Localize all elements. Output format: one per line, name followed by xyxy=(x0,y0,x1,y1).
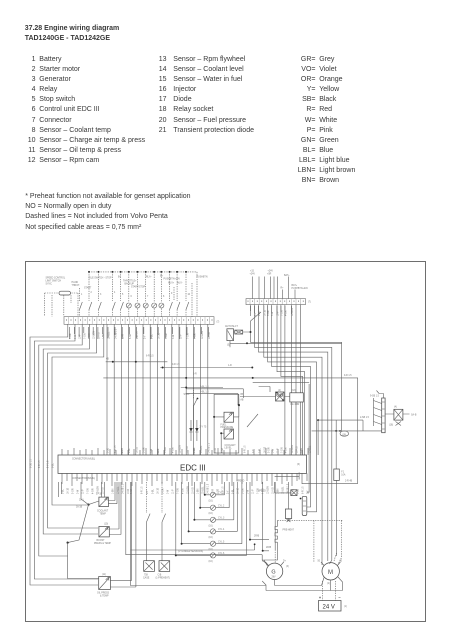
pin labels under strip A xyxy=(70,327,209,339)
svg-text:24 V: 24 V xyxy=(323,605,335,611)
connector strip B (right, item 7) xyxy=(246,299,306,305)
left staircase wire 6 xyxy=(52,324,104,505)
svg-text:9-BL: 9-BL xyxy=(53,462,55,468)
svg-text:EDC III: EDC III xyxy=(180,464,206,473)
svg-text:15-LBL: 15-LBL xyxy=(109,331,111,339)
diode D2 xyxy=(195,420,198,441)
svg-text:SPEED: SPEED xyxy=(237,481,245,483)
svg-text:11-P: 11-P xyxy=(180,334,182,339)
svg-text:(16): (16) xyxy=(209,537,213,539)
svg-text:1-BN: 1-BN xyxy=(278,488,280,494)
svg-text:3-W: 3-W xyxy=(151,448,153,453)
svg-text:7-GN: 7-GN xyxy=(282,447,284,453)
labels above strip B xyxy=(250,271,309,291)
pushbutton B2 xyxy=(135,272,140,317)
auto switch box xyxy=(227,329,234,341)
wires above strip B xyxy=(252,277,295,299)
svg-text:8-SB: 8-SB xyxy=(222,447,224,453)
svg-text:14-SB 1.5: 14-SB 1.5 xyxy=(208,442,210,453)
switch below strip B xyxy=(251,305,262,321)
svg-text:4-OR: 4-OR xyxy=(172,447,174,453)
svg-text:9-BL: 9-BL xyxy=(63,488,65,494)
coolant level sensor (item 14) xyxy=(224,429,234,439)
svg-text:2-Y: 2-Y xyxy=(255,312,257,316)
svg-text:4: 4 xyxy=(114,292,116,294)
sensor 10 wires xyxy=(109,482,121,535)
svg-text:4-OR: 4-OR xyxy=(93,488,95,494)
coolant temp sensor (item 8) xyxy=(99,497,109,507)
svg-text:(1): (1) xyxy=(344,606,347,608)
svg-text:6-SB 1.5: 6-SB 1.5 xyxy=(31,458,33,468)
svg-text:8-SB: 8-SB xyxy=(218,488,220,494)
svg-text:D+: D+ xyxy=(283,561,287,563)
left staircase wire 1 xyxy=(30,324,98,585)
fuel pressure / relay cluster wires xyxy=(240,383,309,397)
svg-text:5-GR: 5-GR xyxy=(73,488,75,494)
svg-text:B+: B+ xyxy=(118,277,122,279)
svg-text:15-LBL: 15-LBL xyxy=(201,445,203,453)
legend column 3: colour codes xyxy=(280,55,355,186)
svg-text:(16): (16) xyxy=(209,525,213,527)
sensor 10 label xyxy=(94,524,111,545)
svg-text:5-GR: 5-GR xyxy=(243,488,245,494)
svg-text:5-GR: 5-GR xyxy=(268,310,270,316)
svg-text:16-1B: 16-1B xyxy=(264,309,266,316)
wire links to sensors xyxy=(186,389,243,407)
pin number labels strip A xyxy=(70,328,211,339)
svg-text:16-1B: 16-1B xyxy=(159,332,161,339)
wire aux drops xyxy=(174,283,192,317)
switch column S2 xyxy=(89,272,92,317)
svg-text:10: 10 xyxy=(188,294,191,296)
EDC pin row top xyxy=(62,448,308,455)
socket top lead xyxy=(370,391,383,399)
generator feed wire xyxy=(274,482,276,563)
svg-text:3-W: 3-W xyxy=(272,448,274,453)
svg-text:2-Y: 2-Y xyxy=(308,490,310,494)
svg-text:13-R: 13-R xyxy=(128,489,130,494)
svg-text:(18): (18) xyxy=(342,435,346,437)
svg-text:12-LBN: 12-LBN xyxy=(292,445,294,453)
staircase rotated labels xyxy=(31,458,55,468)
sensor enclosure xyxy=(214,394,239,453)
cross link 1 xyxy=(106,361,168,363)
svg-text:14-SB 1.5: 14-SB 1.5 xyxy=(116,328,118,339)
svg-text:7-GN: 7-GN xyxy=(88,488,90,494)
relay socket item 18 xyxy=(290,393,304,402)
svg-text:(4): (4) xyxy=(394,407,397,409)
svg-text:(18): (18) xyxy=(389,425,393,427)
switch column S3 xyxy=(99,272,102,317)
G terminals xyxy=(262,561,287,566)
svg-text:(6): (6) xyxy=(297,464,300,466)
wire fuse down xyxy=(336,480,338,556)
wire to junction J1 xyxy=(81,482,90,506)
svg-text:11-P: 11-P xyxy=(278,448,280,453)
svg-text:& TEMP: & TEMP xyxy=(100,596,109,598)
wire pushbtn drop xyxy=(196,272,198,317)
svg-text:2R/B: 2R/B xyxy=(254,536,260,538)
injector feed wires left xyxy=(175,482,211,556)
svg-text:3: 3 xyxy=(100,294,102,296)
svg-text:3-W: 3-W xyxy=(168,489,170,494)
svg-text:9-BL 1.5: 9-BL 1.5 xyxy=(200,392,209,394)
speed sensor pair xyxy=(237,481,270,552)
svg-text:5-R: 5-R xyxy=(193,374,197,376)
wire labels below EDC xyxy=(63,483,310,494)
svg-text:TEMP: TEMP xyxy=(100,514,107,516)
svg-text:START: START xyxy=(84,287,92,290)
pushbutton B5 xyxy=(159,272,164,317)
svg-text:AUX-: AUX- xyxy=(177,282,183,285)
injector 4 xyxy=(209,482,238,539)
svg-text:PUSHBTN+24V: PUSHBTN+24V xyxy=(164,279,181,281)
svg-text:OIL PRESS: OIL PRESS xyxy=(97,593,110,595)
svg-text:(16): (16) xyxy=(209,549,213,551)
svg-text:(18): (18) xyxy=(292,390,296,392)
diode D1 xyxy=(189,420,192,441)
left staircase wire 2 xyxy=(34,324,98,579)
svg-text:RE 4-8R: RE 4-8R xyxy=(291,404,300,406)
oil press sensor (item 11) xyxy=(99,577,111,590)
svg-text:50: 50 xyxy=(318,561,321,563)
rpm cam sensor box (item 12) xyxy=(144,561,155,572)
stop label xyxy=(184,394,191,396)
left staircase wire 3 xyxy=(39,324,82,556)
bundle step wires to generator area xyxy=(126,482,266,586)
auto relay xyxy=(235,330,243,334)
svg-text:12-LBN: 12-LBN xyxy=(98,486,100,494)
relay item 4 xyxy=(276,392,290,401)
svg-text:5-GR: 5-GR xyxy=(144,447,146,453)
cable loop connector xyxy=(339,430,348,436)
sensor 8 label xyxy=(97,510,109,516)
svg-text:PRESS & TEMP: PRESS & TEMP xyxy=(94,543,111,545)
svg-text:G: G xyxy=(271,570,275,576)
pushbutton B1 xyxy=(126,272,131,317)
svg-text:IDLE SWITCH - STOP: IDLE SWITCH - STOP xyxy=(89,278,113,280)
svg-text:9-R 1.5: 9-R 1.5 xyxy=(344,375,352,377)
wires down to M xyxy=(334,553,341,564)
svg-text:SYNC: SYNC xyxy=(46,284,53,286)
strip A label xyxy=(217,322,220,324)
svg-text:13-R: 13-R xyxy=(213,489,215,494)
svg-text:STOP: STOP xyxy=(184,394,191,396)
svg-text:15-LBL: 15-LBL xyxy=(283,486,285,494)
svg-text:8-SB: 8-SB xyxy=(131,488,133,494)
svg-text:3-W: 3-W xyxy=(173,334,175,339)
battery dashed leads xyxy=(323,581,336,601)
pin labels under strip B xyxy=(251,306,292,316)
top dashed bus xyxy=(89,271,197,273)
AB label xyxy=(240,399,244,402)
vertical wires strip A to EDC xyxy=(107,324,208,455)
pushbutton B3 xyxy=(143,272,148,317)
svg-text:7-GN: 7-GN xyxy=(178,488,180,494)
svg-text:PRE-HEAT: PRE-HEAT xyxy=(283,529,295,532)
auto label xyxy=(225,325,238,347)
svg-text:+15: +15 xyxy=(250,271,255,273)
wire labels xyxy=(200,387,209,394)
svg-text:AUTO/SLCT: AUTO/SLCT xyxy=(225,325,238,328)
svg-text:CYL 6: CYL 6 xyxy=(218,553,225,555)
diode box 17 xyxy=(275,472,300,495)
switch column S4 xyxy=(113,272,116,317)
cluster junction dots xyxy=(312,419,382,455)
svg-text:SA-B: SA-B xyxy=(411,414,417,417)
injector 5 xyxy=(209,482,242,551)
mid horizontal links right xyxy=(103,377,357,484)
svg-text:CYL 4: CYL 4 xyxy=(218,529,225,531)
svg-text:5-GR: 5-GR xyxy=(166,333,168,339)
svg-text:(3): (3) xyxy=(286,566,289,568)
fuse F2 xyxy=(334,469,346,480)
svg-text:2-Y: 2-Y xyxy=(228,490,230,494)
svg-text:14-SB 1.5: 14-SB 1.5 xyxy=(123,483,125,494)
switch column labels xyxy=(81,292,191,298)
svg-text:B+: B+ xyxy=(160,276,164,278)
rpm sensor labels xyxy=(143,575,170,580)
svg-text:12-LBN: 12-LBN xyxy=(202,331,204,339)
coolant level label xyxy=(225,444,237,450)
svg-text:9-BL: 9-BL xyxy=(129,447,131,453)
svg-text:(16): (16) xyxy=(209,500,213,502)
svg-text:(7): (7) xyxy=(308,302,311,304)
bottom bus G to M xyxy=(262,577,342,591)
connector B label xyxy=(72,478,95,480)
speed control panel label xyxy=(46,278,66,286)
preheat label xyxy=(283,529,295,532)
svg-text:4-OR: 4-OR xyxy=(286,447,288,453)
connector A label xyxy=(72,457,95,460)
svg-text:9-R 1.5: 9-R 1.5 xyxy=(172,364,180,366)
svg-text:4-OR: 4-OR xyxy=(183,488,185,494)
svg-text:13-R: 13-R xyxy=(215,448,217,453)
svg-text:11-P: 11-P xyxy=(253,489,255,494)
svg-text:14-SB 1.5: 14-SB 1.5 xyxy=(288,483,290,494)
svg-text:(16): (16) xyxy=(209,513,213,515)
svg-text:AB: AB xyxy=(240,399,244,402)
svg-text:11-P: 11-P xyxy=(173,489,175,494)
svg-text:4B: 4B xyxy=(106,359,109,361)
svg-text:5-Y 1.5: 5-Y 1.5 xyxy=(48,460,50,468)
svg-text:3-W: 3-W xyxy=(248,489,250,494)
svg-text:5-GR: 5-GR xyxy=(268,447,270,453)
left pin stubs below EDC xyxy=(59,482,62,497)
M terminals xyxy=(318,561,343,566)
footnotes xyxy=(25,192,190,232)
svg-text:9-BL: 9-BL xyxy=(152,333,154,339)
svg-text:7-GN: 7-GN xyxy=(165,447,167,453)
svg-text:RLY+: RLY+ xyxy=(146,277,152,279)
left staircase wire 4 xyxy=(43,324,98,534)
svg-text:12-LBN: 12-LBN xyxy=(292,308,294,316)
svg-text:1-BN: 1-BN xyxy=(198,488,200,494)
svg-text:11-P: 11-P xyxy=(278,311,280,316)
svg-text:16-1B: 16-1B xyxy=(136,446,138,453)
relay socket assembly (item 18) xyxy=(374,398,386,433)
svg-text:4-OR: 4-OR xyxy=(263,488,265,494)
svg-text:15-LBL: 15-LBL xyxy=(118,486,120,494)
svg-text:THROT.: THROT. xyxy=(72,285,81,287)
pressure label xyxy=(221,424,234,429)
svg-text:8-SB: 8-SB xyxy=(108,447,110,453)
preheat coil xyxy=(264,520,278,566)
svg-text:6-R 1.5: 6-R 1.5 xyxy=(245,445,247,453)
svg-text:(1-PREHEAT): (1-PREHEAT) xyxy=(156,577,170,580)
starter motor M (item 2) xyxy=(322,563,339,585)
svg-text:5-GR: 5-GR xyxy=(163,488,165,494)
svg-text:9: 9 xyxy=(171,293,173,295)
preheat fuse relay xyxy=(285,482,291,522)
svg-text:20-1: 20-1 xyxy=(79,500,84,502)
EDC pin row bottom xyxy=(62,473,307,486)
svg-text:6-R 1.5: 6-R 1.5 xyxy=(146,356,154,358)
boost press sensor (item 10) xyxy=(99,527,109,537)
fuse holder item 9 xyxy=(300,496,307,515)
svg-text:(16): (16) xyxy=(209,561,213,563)
svg-text:LEVEL: LEVEL xyxy=(225,447,233,449)
svg-text:6-R 1.5: 6-R 1.5 xyxy=(115,445,117,453)
svg-text:(10): (10) xyxy=(104,524,108,526)
svg-text:10-VO: 10-VO xyxy=(103,487,105,494)
svg-text:(5): (5) xyxy=(227,345,230,347)
switch column S6 xyxy=(170,272,173,317)
svg-text:12-LBN: 12-LBN xyxy=(94,331,96,339)
mid wire labels xyxy=(106,356,370,550)
svg-text:10A: 10A xyxy=(341,474,346,477)
cross link 3 xyxy=(181,387,223,389)
generator G (item 3) xyxy=(266,563,289,579)
svg-text:5-GR: 5-GR xyxy=(70,333,72,339)
injector 3 xyxy=(209,482,234,527)
svg-text:COOLANT: COOLANT xyxy=(97,510,109,513)
wire down from dot to fuse xyxy=(335,431,337,469)
svg-text:2-Y: 2-Y xyxy=(147,490,149,494)
svg-text:CYL 3: CYL 3 xyxy=(218,518,225,520)
sensor 8 wires xyxy=(89,482,118,505)
switch column S8 xyxy=(186,272,189,317)
svg-text:10-VO: 10-VO xyxy=(98,332,100,339)
dashed drop right xyxy=(314,520,341,562)
svg-text:1-BN: 1-BN xyxy=(194,447,196,453)
wires strip B down to EDC xyxy=(285,305,301,455)
svg-text:7-GN: 7-GN xyxy=(258,488,260,494)
level sensor drop dashed xyxy=(194,388,199,430)
svg-text:BOOST: BOOST xyxy=(97,540,106,542)
svg-text:F1: F1 xyxy=(341,472,344,474)
injector 6 xyxy=(209,482,247,563)
svg-text:1: 1 xyxy=(81,294,83,296)
right staircase from strip B xyxy=(251,321,342,431)
sensor wires xyxy=(213,399,258,453)
svg-text:16-1B: 16-1B xyxy=(264,446,266,453)
svg-text:2: 2 xyxy=(91,292,93,294)
svg-text:(7): (7) xyxy=(217,322,220,324)
svg-text:11-P: 11-P xyxy=(80,334,82,339)
svg-text:6-R 1.5: 6-R 1.5 xyxy=(142,486,144,494)
svg-text:11-P: 11-P xyxy=(158,448,160,453)
svg-text:2-SB 1.5: 2-SB 1.5 xyxy=(360,417,370,419)
svg-text:3-W: 3-W xyxy=(272,311,274,316)
svg-text:HAND: HAND xyxy=(72,281,79,284)
svg-text:+24V: +24V xyxy=(250,274,256,276)
svg-text:BAT+: BAT+ xyxy=(284,274,290,277)
svg-text:10-VO: 10-VO xyxy=(193,487,195,494)
svg-text:8: 8 xyxy=(163,296,165,298)
svg-text:THROTTLE+: THROTTLE+ xyxy=(123,281,137,283)
svg-text:13-R: 13-R xyxy=(123,334,125,339)
pushbutton B4 xyxy=(152,272,157,317)
cross link 2 xyxy=(160,367,253,369)
rpm fly sensor wire with switch xyxy=(162,482,166,561)
cylinder sensors label xyxy=(178,551,203,553)
misc top labels xyxy=(84,276,208,290)
svg-text:AUX+: AUX+ xyxy=(168,282,175,285)
switch column S1 xyxy=(80,288,83,317)
svg-text:16-1B: 16-1B xyxy=(158,487,160,494)
svg-text:COOLANT: COOLANT xyxy=(225,444,237,447)
svg-text:7-GN: 7-GN xyxy=(281,310,283,316)
svg-text:1-BN: 1-BN xyxy=(113,488,115,494)
svg-text:LIMIT SWITCH: LIMIT SWITCH xyxy=(46,281,62,283)
svg-text:2-Y 75: 2-Y 75 xyxy=(200,427,207,429)
svg-text:2R/B: 2R/B xyxy=(266,547,272,549)
svg-text:15-LBL: 15-LBL xyxy=(310,445,312,453)
title xyxy=(25,24,120,45)
rpm cam sensor wire with switch xyxy=(147,482,151,561)
battery (item 1) xyxy=(319,597,348,612)
svg-text:SPEED CONTROL: SPEED CONTROL xyxy=(46,278,66,280)
connector strip A (left, item 7) xyxy=(64,317,214,325)
svg-text:9-BL: 9-BL xyxy=(260,447,262,453)
svg-text:START/STOP: START/STOP xyxy=(131,286,146,289)
svg-text:PRESSURE: PRESSURE xyxy=(221,427,234,429)
svg-text:8-SB: 8-SB xyxy=(130,333,132,339)
svg-text:CYL 2: CYL 2 xyxy=(218,505,225,507)
left feed to G xyxy=(262,555,268,566)
bus junction dots xyxy=(88,271,187,273)
svg-text:758: 758 xyxy=(144,575,149,577)
svg-text:+5R: +5R xyxy=(267,274,272,276)
svg-text:4-OR: 4-OR xyxy=(285,310,287,316)
svg-text:9-SB 1.5: 9-SB 1.5 xyxy=(370,396,380,398)
left staircase wire 5 xyxy=(48,324,98,528)
svg-text:10-VO: 10-VO xyxy=(187,446,189,453)
wires right of EDC going down xyxy=(307,384,336,492)
svg-text:1-BN: 1-BN xyxy=(301,447,303,453)
injector 2 xyxy=(209,482,230,515)
svg-text:12-LBN: 12-LBN xyxy=(188,486,190,494)
wire J1 to J2 xyxy=(67,505,99,579)
fuel pressure sensor (item 20) xyxy=(224,412,234,422)
idle switch stop label xyxy=(89,278,113,280)
J1 labels xyxy=(76,494,103,509)
svg-text:7: 7 xyxy=(147,296,149,298)
label 18 xyxy=(342,435,346,437)
svg-text:PUSHBTN: PUSHBTN xyxy=(197,277,208,279)
relay coil xyxy=(385,409,409,425)
svg-text:1-R: 1-R xyxy=(228,365,232,367)
svg-text:CASE: CASE xyxy=(143,577,150,580)
svg-text:3-W: 3-W xyxy=(78,489,80,494)
sensor 11 wires xyxy=(110,482,135,587)
svg-text:8-SB: 8-SB xyxy=(298,488,300,494)
switch column S5 xyxy=(121,272,124,317)
svg-text:BACKUP: BACKUP xyxy=(125,283,135,286)
svg-text:10-VO: 10-VO xyxy=(209,332,211,339)
svg-text:6-R 1.5: 6-R 1.5 xyxy=(223,486,225,494)
